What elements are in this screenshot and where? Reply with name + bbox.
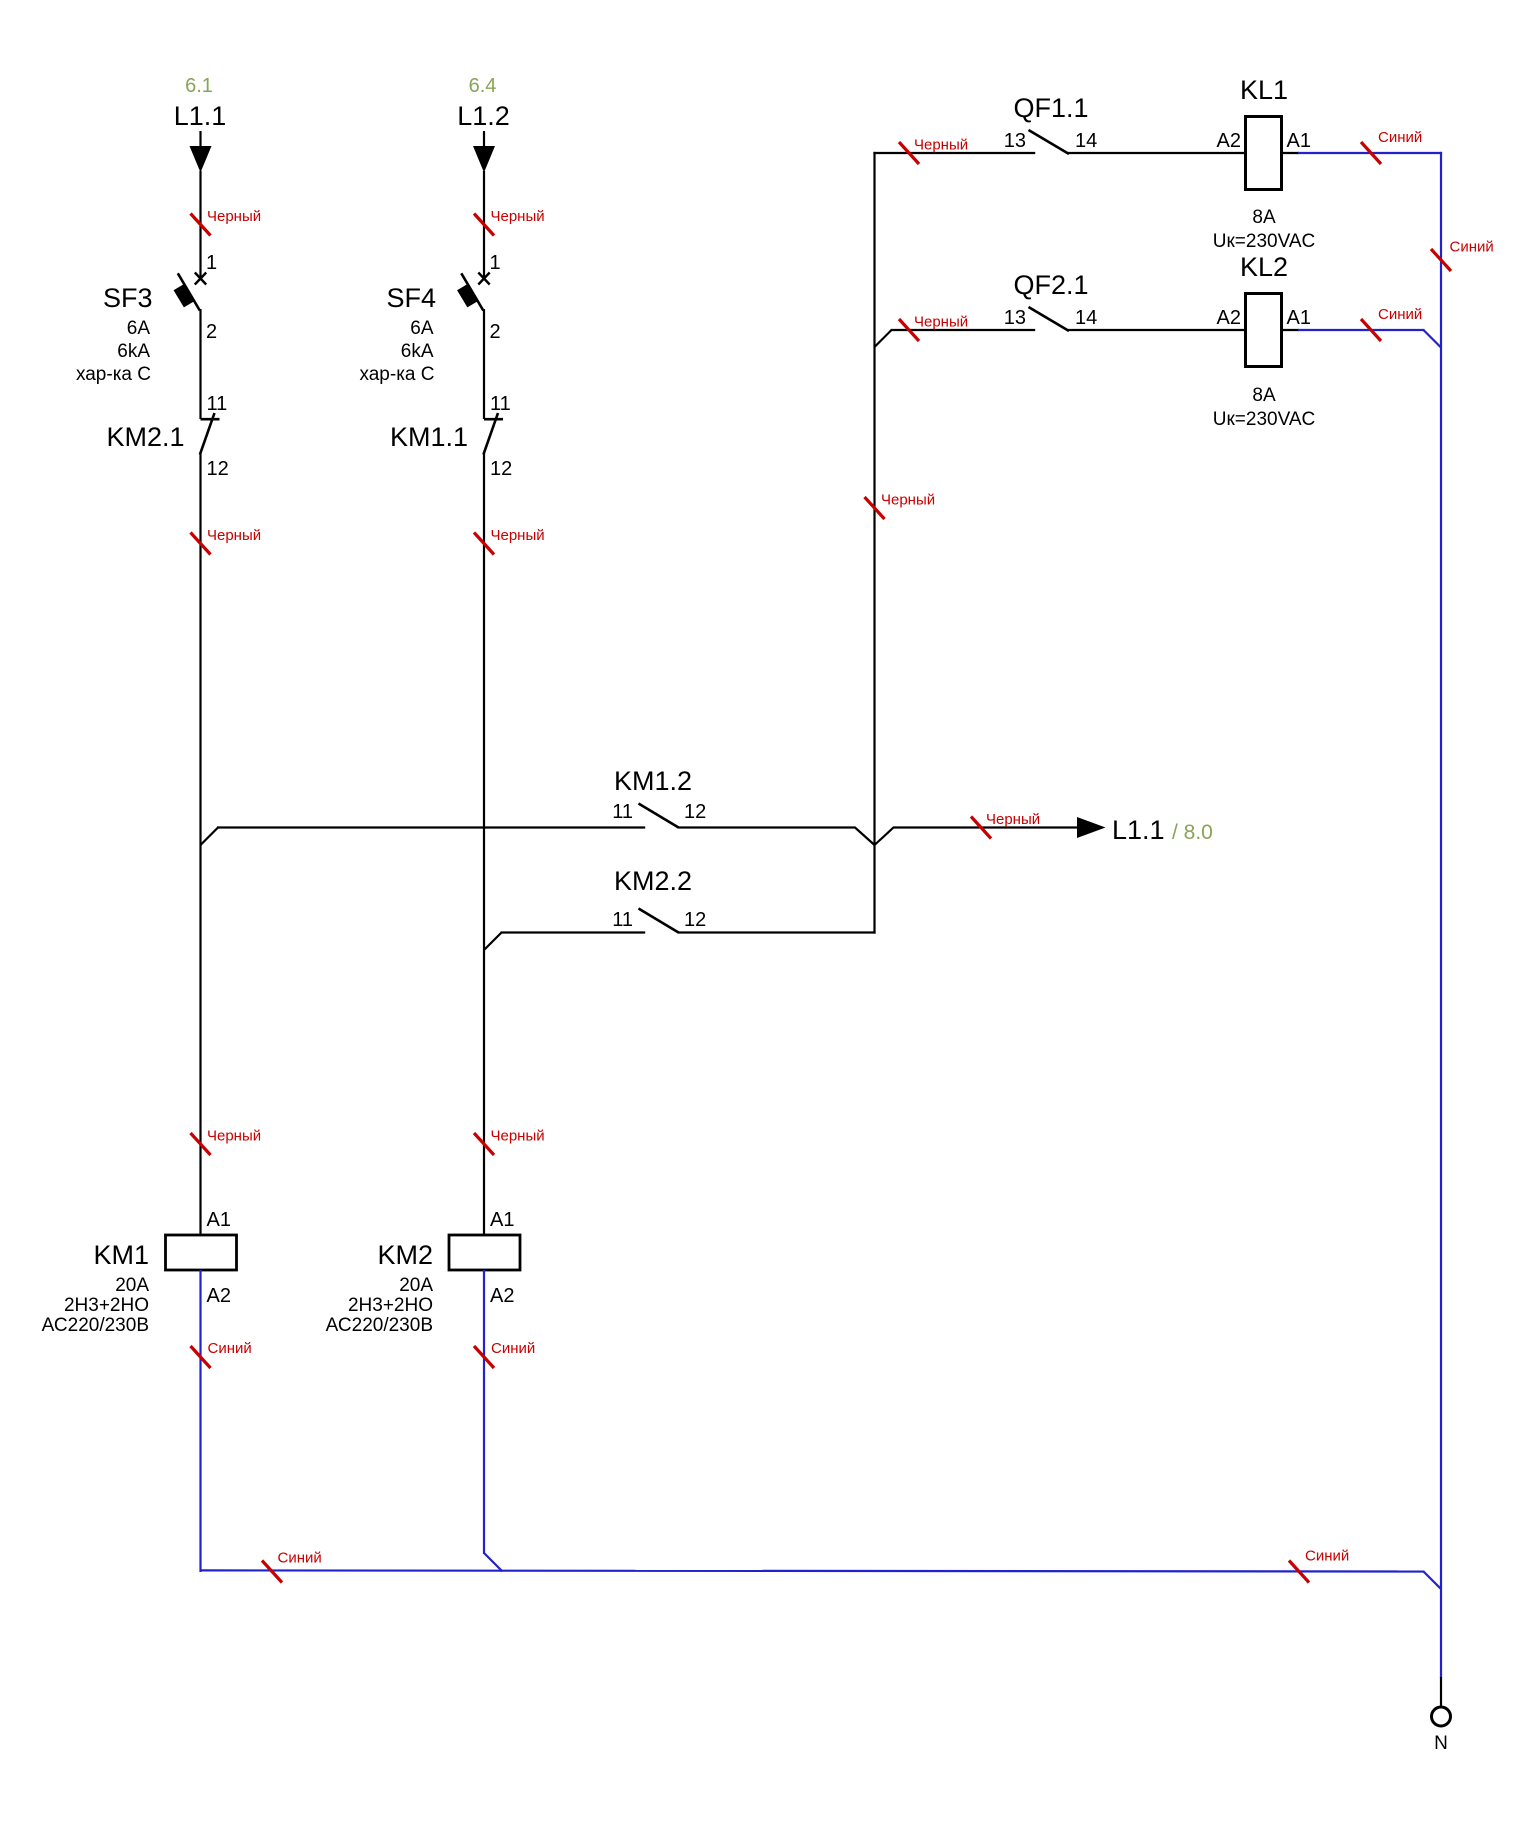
jog control bus -> QF2.1 row <box>875 330 892 347</box>
svg-text:QF2.1: QF2.1 <box>1013 270 1088 300</box>
svg-text:хар-ка С: хар-ка С <box>359 364 434 385</box>
svg-text:20A: 20A <box>399 1275 433 1296</box>
svg-text:6A: 6A <box>127 318 151 339</box>
wire QF1.1 pin14 -> KL1 A2 (black) <box>1068 152 1246 154</box>
svg-text:АС220/230В: АС220/230В <box>42 1315 149 1336</box>
svg-text:QF1.1: QF1.1 <box>1013 93 1088 123</box>
svg-text:Uк=230VAC: Uк=230VAC <box>1213 409 1316 430</box>
svg-text:хар-ка С: хар-ка С <box>76 364 151 385</box>
svg-text:8A: 8A <box>1252 207 1276 228</box>
svg-text:2: 2 <box>206 321 217 343</box>
svg-text:A1: A1 <box>1287 130 1311 152</box>
wire jog -> QF2.1 pin13 (black) <box>891 314 1036 342</box>
svg-text:Синий: Синий <box>1378 306 1422 323</box>
svg-text:L1.1: L1.1 <box>174 101 227 131</box>
svg-text:A2: A2 <box>1217 130 1241 152</box>
wire blue N bus vertical <box>1431 152 1494 1678</box>
svg-text:A2: A2 <box>490 1285 514 1307</box>
wire KM1.1 pin12 -> KM2 coil A1 (black) <box>474 454 545 1237</box>
NO contact KM1.2 <box>639 804 679 828</box>
svg-text:1: 1 <box>490 252 501 274</box>
wire control bus -> QF1.1 pin13 (black) <box>873 137 1035 165</box>
svg-text:/ 8.0: / 8.0 <box>1172 821 1213 844</box>
contactor coil KM2 <box>326 1235 520 1336</box>
svg-text:Синий: Синий <box>491 1340 535 1357</box>
svg-text:Синий: Синий <box>278 1550 322 1567</box>
svg-text:6kA: 6kA <box>117 341 150 362</box>
wire KM1.2 row left segment (black) <box>217 826 645 828</box>
wire KM1.2 -> junction on control bus <box>678 828 875 846</box>
svg-text:14: 14 <box>1075 130 1097 152</box>
svg-text:11: 11 <box>207 393 228 415</box>
svg-text:Черный: Черный <box>914 137 968 154</box>
svg-text:Синий: Синий <box>1450 239 1494 256</box>
junction jog L1.1 leg -> KM1.2 row <box>201 828 219 846</box>
wire L1.2 -> SF4 pin1 (black) <box>474 171 545 278</box>
svg-text:14: 14 <box>1075 307 1097 329</box>
svg-text:Синий: Синий <box>1378 129 1422 146</box>
terminal N <box>1432 1677 1451 1754</box>
node L1.2 incoming from sheet 6.4 <box>457 75 510 173</box>
svg-text:Черный: Черный <box>491 208 545 225</box>
svg-text:8A: 8A <box>1252 385 1276 406</box>
svg-text:N: N <box>1434 1733 1448 1754</box>
wire KL1 A1 stub (black) <box>1282 152 1300 154</box>
wire QF2.1 pin14 -> KL2 A2 (black) <box>1068 329 1246 331</box>
svg-text:АС220/230В: АС220/230В <box>326 1315 433 1336</box>
svg-text:2Н3+2НО: 2Н3+2НО <box>348 1295 433 1316</box>
wire blue KM2 A2 -> neutral bus <box>474 1270 535 1554</box>
svg-text:A2: A2 <box>207 1285 231 1307</box>
svg-text:13: 13 <box>1004 307 1026 329</box>
svg-text:Черный: Черный <box>491 527 545 544</box>
wire KM2.2 row left segment (black) <box>501 931 646 933</box>
svg-text:6.1: 6.1 <box>185 75 213 97</box>
relay coil KL1 <box>1213 75 1316 252</box>
circuit breaker SF3 <box>76 273 206 420</box>
wire L1.1 -> SF3 pin1 (black) <box>191 171 262 278</box>
wire blue neutral bottom bus <box>201 1548 1425 1583</box>
NO contact QF2.1 <box>1029 307 1070 331</box>
wire blue KM1 A2 -> neutral bus <box>191 1270 252 1572</box>
svg-text:Черный: Черный <box>914 314 968 331</box>
svg-text:11: 11 <box>490 393 511 415</box>
svg-text:Uк=230VAC: Uк=230VAC <box>1213 231 1316 252</box>
svg-text:KM1.2: KM1.2 <box>614 766 692 796</box>
wire blue KL2 A1 -> N bus jog <box>1298 306 1425 341</box>
svg-text:2Н3+2НО: 2Н3+2НО <box>64 1295 149 1316</box>
svg-text:KM2.2: KM2.2 <box>614 866 692 896</box>
outgoing node arrow L1.1 to sheet 8.0 <box>1077 815 1213 845</box>
svg-text:KL2: KL2 <box>1240 252 1288 282</box>
wire KL2 A1 stub (black) <box>1282 329 1300 331</box>
jog blue KL2 row -> N bus vertical <box>1424 330 1442 348</box>
svg-text:20A: 20A <box>115 1275 149 1296</box>
NC contact KM2.1 <box>106 413 219 455</box>
svg-text:KL1: KL1 <box>1240 75 1288 105</box>
node L1.1 incoming from sheet 6.1 <box>174 75 227 173</box>
wire junction -> outgoing L1.1 arrow (black) <box>875 811 1079 845</box>
wire blue KL1 A1 -> N bus <box>1298 129 1442 164</box>
svg-text:13: 13 <box>1004 130 1026 152</box>
svg-text:Черный: Черный <box>207 527 261 544</box>
svg-text:2: 2 <box>490 321 501 343</box>
contactor coil KM1 <box>42 1235 237 1336</box>
svg-text:Синий: Синий <box>1305 1548 1349 1565</box>
circuit breaker SF4 <box>359 273 489 420</box>
svg-text:A1: A1 <box>490 1209 514 1231</box>
NO contact QF1.1 <box>1029 130 1070 154</box>
wire KM2.1 pin12 -> KM1 coil A1 (black) <box>191 454 262 1237</box>
svg-text:12: 12 <box>684 909 706 931</box>
svg-text:KM1: KM1 <box>93 1240 149 1270</box>
svg-text:Синий: Синий <box>208 1340 252 1357</box>
NC contact KM1.1 <box>390 413 503 455</box>
svg-text:6A: 6A <box>410 318 434 339</box>
svg-text:11: 11 <box>612 909 633 931</box>
svg-text:L1.1: L1.1 <box>1112 815 1165 845</box>
relay coil KL2 <box>1213 252 1316 430</box>
NO contact KM2.2 <box>639 909 679 933</box>
svg-text:Черный: Черный <box>491 1128 545 1145</box>
svg-text:L1.2: L1.2 <box>457 101 510 131</box>
svg-text:6kA: 6kA <box>401 341 434 362</box>
svg-text:Черный: Черный <box>986 811 1040 828</box>
svg-text:Черный: Черный <box>881 492 935 509</box>
junction jog L1.2 leg -> KM2.2 row <box>484 933 502 951</box>
wire black control bus vertical <box>865 152 936 934</box>
svg-text:KM1.1: KM1.1 <box>390 422 468 452</box>
jog blue bottom bus -> N bus vertical <box>1424 1572 1442 1590</box>
svg-text:12: 12 <box>684 801 706 823</box>
svg-text:12: 12 <box>207 458 229 480</box>
svg-text:A1: A1 <box>1287 307 1311 329</box>
svg-text:A1: A1 <box>207 1209 231 1231</box>
svg-text:12: 12 <box>490 458 512 480</box>
svg-text:KM2.1: KM2.1 <box>106 422 184 452</box>
svg-text:SF3: SF3 <box>103 283 153 313</box>
svg-text:A2: A2 <box>1217 307 1241 329</box>
svg-text:Черный: Черный <box>207 208 261 225</box>
svg-text:6.4: 6.4 <box>469 75 497 97</box>
svg-text:SF4: SF4 <box>386 283 436 313</box>
wire KM2.2 -> control bus corner <box>678 931 876 933</box>
svg-text:Черный: Черный <box>207 1128 261 1145</box>
jog blue KM2 leg -> neutral bus <box>484 1553 503 1572</box>
svg-text:11: 11 <box>612 801 633 823</box>
svg-text:1: 1 <box>206 252 217 274</box>
svg-text:KM2: KM2 <box>377 1240 433 1270</box>
